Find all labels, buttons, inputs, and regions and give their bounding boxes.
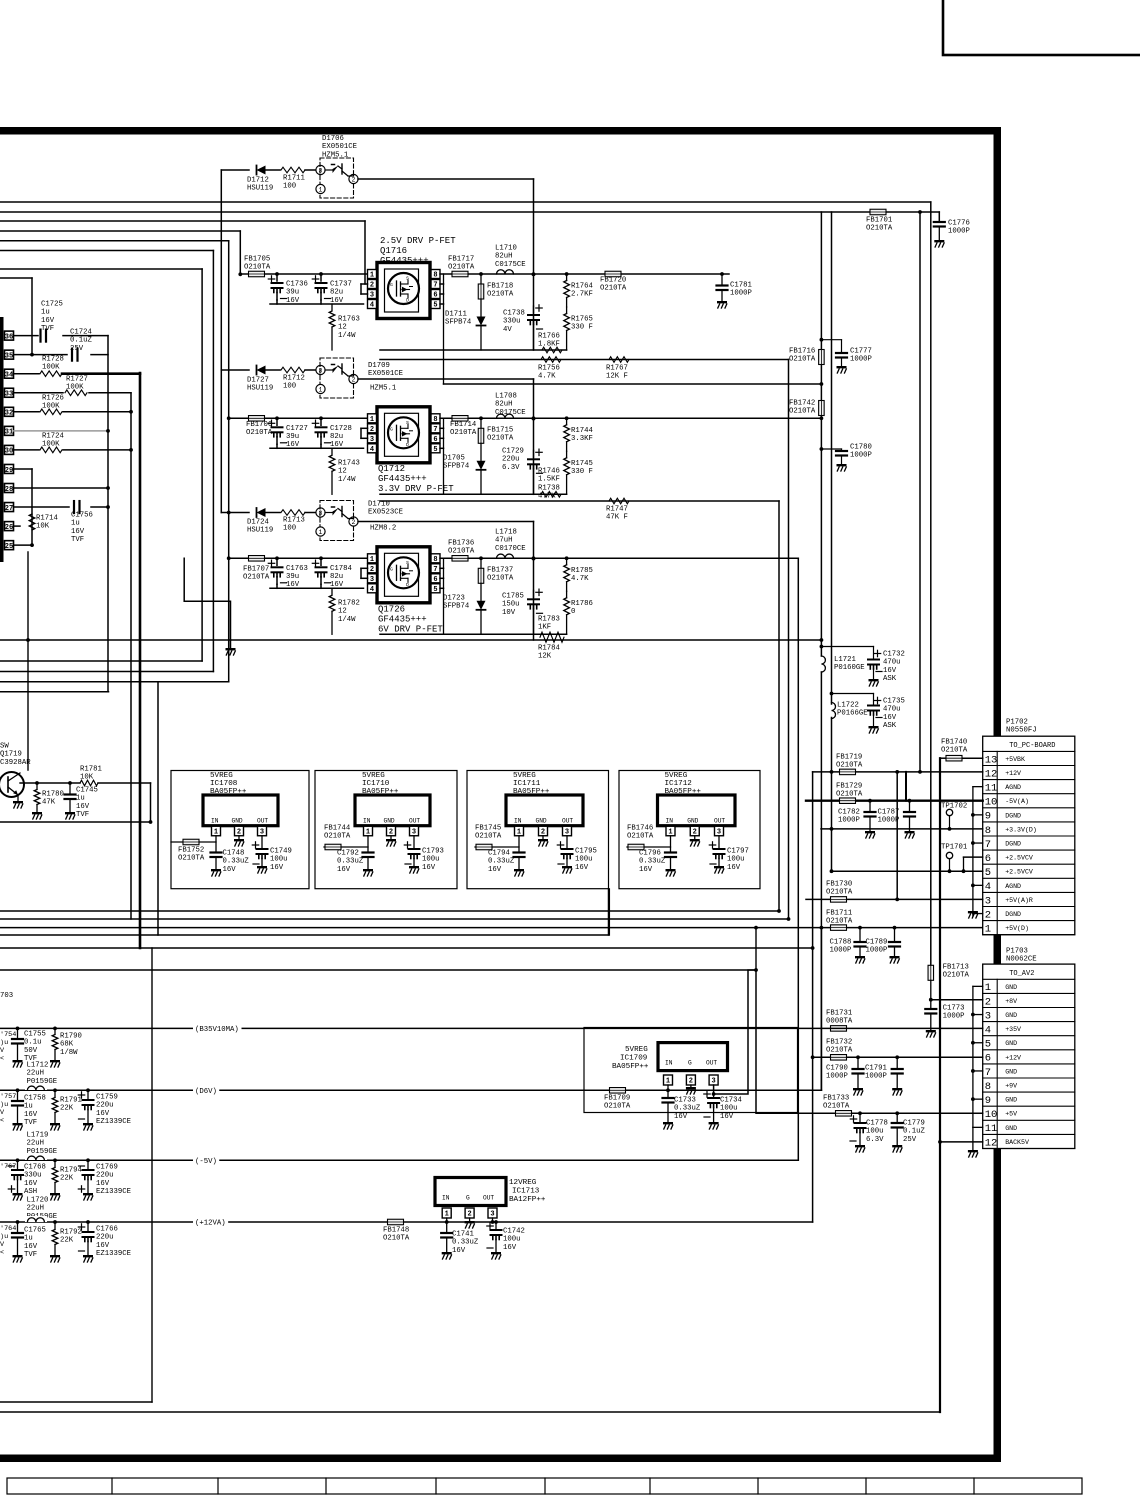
svg-text:TVF: TVF <box>24 1251 37 1259</box>
resistor R1767 <box>609 357 629 363</box>
wire IC1709 pin3 out <box>713 1085 715 1094</box>
svg-text:4.7K: 4.7K <box>571 575 589 583</box>
section box IC1711 <box>467 771 609 889</box>
connector pin 31 <box>5 426 14 435</box>
IC1711 pin 3 <box>563 826 572 836</box>
svg-text:C1749: C1749 <box>270 847 292 855</box>
wire rail2 stage1 <box>380 359 789 361</box>
Q1716 pin 6 <box>431 290 440 299</box>
svg-text:39u: 39u <box>286 289 299 297</box>
svg-text:Q1712: Q1712 <box>378 464 405 474</box>
svg-text:703: 703 <box>0 992 13 1000</box>
IC1708 pin 1 <box>212 826 221 836</box>
svg-text:100: 100 <box>283 383 296 391</box>
photo-triac D1706 package <box>316 165 325 174</box>
svg-text:O210TA: O210TA <box>604 1103 631 1111</box>
IC1710 pin 3 <box>410 826 419 836</box>
svg-text:R1744: R1744 <box>571 427 594 435</box>
svg-text:O210TA: O210TA <box>866 225 893 233</box>
svg-text:D1727: D1727 <box>247 376 269 384</box>
svg-text:R1714: R1714 <box>36 514 59 522</box>
svg-text:D1709: D1709 <box>368 362 390 370</box>
regulator IC1709 block <box>658 1043 728 1071</box>
IC1708 pin2 ground <box>238 836 240 839</box>
ferrite bead FB1716 <box>819 350 825 365</box>
edge connector bar <box>0 317 4 562</box>
svg-text:P1702: P1702 <box>1006 718 1028 726</box>
wire D1710 out <box>358 521 534 523</box>
svg-text:Q1716: Q1716 <box>380 246 407 256</box>
svg-text:C1758: C1758 <box>24 1094 46 1102</box>
svg-text:OUT: OUT <box>409 818 420 825</box>
svg-text:9: 9 <box>985 1095 991 1107</box>
wire vertical x906 <box>905 772 907 801</box>
svg-text:C1759: C1759 <box>96 1093 118 1101</box>
svg-text:FB1706: FB1706 <box>246 421 272 429</box>
svg-text:5: 5 <box>985 867 991 879</box>
wire feed Q1716 <box>240 273 367 275</box>
svg-text:D1723: D1723 <box>443 594 465 602</box>
capacitor C1782 <box>869 801 871 811</box>
Q1726 pin 4 <box>368 584 377 593</box>
svg-text:R1781: R1781 <box>80 765 103 773</box>
svg-text:C1737: C1737 <box>330 280 352 288</box>
svg-text:)u: )u <box>0 1039 8 1047</box>
svg-text:28: 28 <box>5 486 13 494</box>
P1702 pin 9 DGND <box>983 821 1075 823</box>
bus line M4 <box>0 681 229 683</box>
svg-text:35: 35 <box>5 352 13 360</box>
svg-text:C1773: C1773 <box>943 1004 965 1012</box>
wire vertical x920 +12V feed <box>919 212 921 772</box>
svg-text:L1719: L1719 <box>27 1131 49 1139</box>
svg-text:FB1729: FB1729 <box>836 782 862 790</box>
Q1712 pin 5 <box>431 444 440 453</box>
ferrite bead FB1730 <box>831 897 847 903</box>
wire x963 row6-row5 <box>963 857 965 871</box>
svg-text:O210TA: O210TA <box>448 548 475 556</box>
wire vertical x812 +12VA riser <box>812 772 814 1222</box>
svg-text:C1777: C1777 <box>850 347 872 355</box>
svg-text:G: G <box>466 1195 470 1202</box>
svg-text:S: S <box>406 276 409 282</box>
svg-text:3: 3 <box>490 1211 494 1219</box>
svg-text:FB1718: FB1718 <box>487 282 513 290</box>
svg-text:25V: 25V <box>70 345 84 353</box>
svg-text:3: 3 <box>985 1010 991 1022</box>
svg-text:47K: 47K <box>42 799 56 807</box>
P1703 pin 3 GND <box>983 1021 1075 1023</box>
svg-text:5VREG: 5VREG <box>665 772 688 780</box>
svg-text:39u: 39u <box>286 573 299 581</box>
inductor L1710 <box>497 270 514 274</box>
resistor R1713 <box>266 512 280 514</box>
svg-text:FB1732: FB1732 <box>826 1038 852 1046</box>
svg-text:R1791: R1791 <box>60 1096 83 1104</box>
resistor R1745 <box>564 458 570 475</box>
svg-text:BA05FP++: BA05FP++ <box>665 788 702 796</box>
svg-text:O210TA: O210TA <box>450 429 477 437</box>
svg-text:O210TA: O210TA <box>943 972 970 980</box>
bus line B7 <box>0 268 202 270</box>
svg-text:<: < <box>0 1117 4 1125</box>
wire Q1716 pin2-3 stubs <box>361 283 368 285</box>
P1702 pin 11 AGND <box>983 793 1075 795</box>
svg-text:16V: 16V <box>727 864 741 872</box>
IC1711 pin 1 <box>515 826 524 836</box>
svg-text:50V: 50V <box>24 1047 38 1055</box>
capacitor C1797 <box>718 836 720 848</box>
svg-text:1000P: 1000P <box>948 228 970 236</box>
svg-text:R1745: R1745 <box>571 460 593 468</box>
svg-text:R1746: R1746 <box>538 467 560 475</box>
Q1712 pin 6 <box>431 434 440 443</box>
svg-text:5VREG: 5VREG <box>513 772 536 780</box>
svg-text:16V: 16V <box>24 1180 38 1188</box>
inductor L1720 <box>25 1216 47 1222</box>
IC1708 pin 3 <box>258 826 267 836</box>
P1703 pin 2 +8V <box>983 1007 1075 1009</box>
IC1709 pin 1 <box>664 1075 673 1085</box>
svg-text:SFPB74: SFPB74 <box>445 319 472 327</box>
svg-text:FB1701: FB1701 <box>866 216 893 224</box>
capacitor C1778 <box>859 1113 861 1122</box>
capacitor C1777 <box>821 339 841 341</box>
svg-text:+2.5VCV: +2.5VCV <box>1005 855 1033 862</box>
svg-text:3: 3 <box>985 895 991 907</box>
svg-text:1: 1 <box>370 416 374 424</box>
svg-text:AGND: AGND <box>1005 883 1021 890</box>
svg-text:16V: 16V <box>488 866 502 874</box>
svg-text:1000P: 1000P <box>826 1073 848 1081</box>
P1702 pin 4 AGND <box>983 891 1075 893</box>
svg-text:6: 6 <box>985 1053 991 1065</box>
svg-text:GF4435+++: GF4435+++ <box>380 256 429 266</box>
svg-text:D1712: D1712 <box>247 176 269 184</box>
resistor R1791 <box>54 1090 56 1097</box>
svg-text:5VREG: 5VREG <box>362 772 385 780</box>
capacitor C1727 <box>275 416 279 420</box>
svg-text:12: 12 <box>985 1137 998 1149</box>
P1702 pin 7 DGND <box>983 849 1075 851</box>
wire Q1716 pin5-7 stubs <box>440 283 444 285</box>
svg-text:+9V: +9V <box>1005 1083 1017 1090</box>
svg-text:1000P: 1000P <box>830 947 852 955</box>
svg-text:220u: 220u <box>502 456 520 464</box>
svg-text:SW: SW <box>0 742 9 750</box>
svg-text:10K: 10K <box>36 523 50 531</box>
resistor R1726 <box>14 411 40 413</box>
svg-text:5VREG: 5VREG <box>210 772 233 780</box>
wire caps bottom rail Q1712 <box>270 447 364 449</box>
svg-text:C0170CE: C0170CE <box>495 545 526 553</box>
svg-text:ASH: ASH <box>24 1188 37 1196</box>
svg-text:100K: 100K <box>42 364 60 372</box>
svg-text:100K: 100K <box>66 384 84 392</box>
svg-text:GND: GND <box>1005 1012 1017 1019</box>
Q1712 pin 3 <box>368 434 377 443</box>
svg-text:R1780: R1780 <box>42 790 64 798</box>
svg-text:C1780: C1780 <box>850 443 872 451</box>
regulator IC1713 block <box>435 1178 506 1206</box>
ferrite bead FB1733 <box>836 1111 852 1117</box>
svg-text:330u: 330u <box>503 318 521 326</box>
wire Q1726 pin5-7 stubs <box>440 567 444 569</box>
wire vertical x240 to stage1 <box>239 231 241 274</box>
svg-text:P0159GE: P0159GE <box>27 1148 58 1156</box>
svg-text:OUT: OUT <box>483 1195 494 1202</box>
ferrite bead FB1732 <box>831 1055 847 1061</box>
section box IC1712 <box>619 771 760 889</box>
svg-text:16V: 16V <box>452 1247 466 1255</box>
P1702 pin 3 +5V(A)R <box>983 906 1075 908</box>
svg-text:)u: )u <box>0 1101 8 1109</box>
svg-text:FB1733: FB1733 <box>823 1094 849 1102</box>
wire vertical x202 <box>201 269 203 661</box>
svg-text:2: 2 <box>467 1211 471 1219</box>
top-right title box <box>943 0 1140 55</box>
resistor R1765 <box>564 314 570 331</box>
svg-text:-5V(A): -5V(A) <box>1005 798 1029 805</box>
capacitor C1789 <box>894 928 896 941</box>
resistor R1786 <box>564 598 570 615</box>
svg-text:P0160GE: P0160GE <box>834 664 865 672</box>
svg-text:150u: 150u <box>502 601 520 609</box>
svg-text:D1711: D1711 <box>445 310 468 318</box>
svg-text:2: 2 <box>985 996 991 1008</box>
wire pin28 <box>14 487 109 489</box>
svg-text:8: 8 <box>433 416 437 424</box>
wire +12V row12 <box>813 771 983 773</box>
ferrite bead FB1744 <box>367 836 369 851</box>
resistor R1766 <box>542 347 562 353</box>
wire vertical x158 <box>157 682 159 935</box>
svg-text:5: 5 <box>433 446 437 454</box>
ferrite bead FB1705 <box>249 271 265 277</box>
svg-text:+35V: +35V <box>1005 1026 1021 1033</box>
svg-text:12K: 12K <box>538 653 552 661</box>
svg-text:16V: 16V <box>720 1113 734 1121</box>
svg-text:C1741: C1741 <box>452 1230 475 1238</box>
svg-text:C1765: C1765 <box>24 1226 46 1234</box>
IC1709 pin 3 <box>709 1075 718 1085</box>
bus line L2 <box>0 918 789 920</box>
svg-text:12: 12 <box>338 468 347 476</box>
photo-triac D1709 package <box>316 365 325 374</box>
resistor R1727 <box>14 392 64 394</box>
svg-text:FB1737: FB1737 <box>487 566 513 574</box>
P1703 pin 7 GND <box>983 1077 1075 1079</box>
svg-text:(+12VA): (+12VA) <box>195 1220 226 1228</box>
wire Q1712 output <box>440 417 821 419</box>
svg-text:HZM5.1: HZM5.1 <box>370 384 397 392</box>
svg-text:0008TA: 0008TA <box>826 1018 853 1026</box>
section box IC1709 <box>584 1028 798 1113</box>
svg-text:G: G <box>688 1060 692 1067</box>
capacitor C1734 <box>713 1094 715 1097</box>
svg-text:R1728: R1728 <box>42 355 64 363</box>
svg-text:FB1714: FB1714 <box>450 421 477 429</box>
section box IC1708 <box>171 771 309 889</box>
svg-text:1000P: 1000P <box>865 1073 887 1081</box>
svg-text:S: S <box>406 560 409 566</box>
wire Q1719 base row <box>20 782 80 784</box>
wire vertical x533 segment1 <box>533 179 535 350</box>
svg-text:8: 8 <box>433 556 437 564</box>
svg-text:7: 7 <box>433 566 437 574</box>
svg-text:C0175CE: C0175CE <box>495 409 526 417</box>
svg-text:4: 4 <box>370 446 374 454</box>
svg-text:330 F: 330 F <box>571 324 593 332</box>
IC1709 pin 2 <box>686 1075 695 1085</box>
svg-text:31: 31 <box>5 429 13 437</box>
resistor R1712 <box>266 369 280 371</box>
Q1716 pin 7 <box>431 280 440 289</box>
svg-text:C1787: C1787 <box>878 808 900 816</box>
svg-text:EX0501CE: EX0501CE <box>322 143 357 151</box>
svg-text:R1743: R1743 <box>338 459 360 467</box>
wire return line y1412 <box>0 1411 940 1413</box>
capacitor C1729 <box>533 450 535 457</box>
capacitor C1735 <box>832 693 874 695</box>
svg-text:1/4W: 1/4W <box>338 616 356 624</box>
svg-text:2: 2 <box>370 426 374 434</box>
svg-text:7: 7 <box>985 1067 991 1079</box>
wire vertical x821 chain FB1716/FB1742/L1721/D6V <box>820 212 822 656</box>
P1702 ground symbol <box>972 914 974 916</box>
svg-text:0.33uZ: 0.33uZ <box>639 858 666 866</box>
svg-text:O210TA: O210TA <box>475 833 502 841</box>
svg-text:10K: 10K <box>80 774 94 782</box>
svg-text:D1724: D1724 <box>247 518 270 526</box>
svg-text:1: 1 <box>370 272 374 280</box>
wire x443 350-384 link <box>443 350 445 384</box>
svg-text:16V: 16V <box>422 864 436 872</box>
connector P1702 table <box>983 736 1075 935</box>
svg-text:100u: 100u <box>866 1128 884 1136</box>
svg-text:16V: 16V <box>76 803 90 811</box>
IC1710 pin 2 <box>387 826 396 836</box>
svg-text:12K F: 12K F <box>606 373 628 381</box>
svg-text:C1745: C1745 <box>76 786 98 794</box>
wire IC1709 pin1 to D6V <box>667 1085 669 1090</box>
connector pin 30 <box>5 445 14 454</box>
Q1726 pin 6 <box>431 574 440 583</box>
svg-text:+5V(A)R: +5V(A)R <box>1005 897 1033 904</box>
resistor R1714 <box>29 514 35 530</box>
svg-text:5VREG: 5VREG <box>625 1046 648 1054</box>
wire IC1713 pin1 <box>446 1218 448 1222</box>
svg-text:1u: 1u <box>24 1235 33 1243</box>
svg-text:4: 4 <box>370 586 374 594</box>
wire Q1716 output <box>440 273 729 275</box>
svg-text:C1792: C1792 <box>337 849 359 857</box>
wire vertical x821 D6V riser <box>820 928 822 1091</box>
svg-text:FB1719: FB1719 <box>836 753 862 761</box>
svg-text:HSU119: HSU119 <box>247 185 273 193</box>
svg-text:1000P: 1000P <box>878 817 900 825</box>
border frame top bar <box>0 127 1001 135</box>
svg-text:12VREG: 12VREG <box>509 1179 537 1187</box>
ferrite bead FB1717 <box>452 271 468 277</box>
svg-text:BA05FP++: BA05FP++ <box>210 788 247 796</box>
connector pin 35 <box>5 350 14 359</box>
svg-text:R1738: R1738 <box>538 484 560 492</box>
svg-text:C1728: C1728 <box>330 425 352 433</box>
P1703 pin 6 +12V <box>983 1063 1075 1065</box>
svg-text:1.8KF: 1.8KF <box>538 341 560 349</box>
svg-text:5: 5 <box>433 302 437 310</box>
ferrite bead FB1729 <box>840 798 856 804</box>
wire vertical x221 from D1712 <box>220 170 222 513</box>
Q1712 pin 8 <box>431 414 440 423</box>
regulator IC1712 block <box>658 795 736 826</box>
svg-text:)u: )u <box>0 1233 8 1241</box>
capacitor C1785 <box>533 590 535 597</box>
ferrite bead FB1714 <box>452 416 468 422</box>
svg-text:2: 2 <box>370 566 374 574</box>
svg-text:GND: GND <box>1005 1097 1017 1104</box>
svg-text:'757: '757 <box>0 1093 16 1101</box>
capacitor C1758 <box>17 1090 19 1100</box>
capacitor C1779 <box>896 1113 898 1122</box>
svg-text:16V: 16V <box>270 864 284 872</box>
capacitor C1755 <box>17 1028 19 1038</box>
svg-text:470u: 470u <box>883 706 901 714</box>
svg-text:2: 2 <box>352 376 356 383</box>
svg-text:O210TA: O210TA <box>448 264 475 272</box>
transistor Q1719 <box>0 772 24 797</box>
svg-text:C1735: C1735 <box>883 697 905 705</box>
box3 edge extension <box>608 889 610 935</box>
svg-text:FB1711: FB1711 <box>826 909 853 917</box>
svg-text:13: 13 <box>985 754 998 766</box>
svg-text:GF4435+++: GF4435+++ <box>378 615 427 625</box>
svg-text:L1721: L1721 <box>834 656 857 664</box>
svg-text:7: 7 <box>985 839 991 851</box>
P1702 pin 10 -5V(A) <box>983 807 1075 809</box>
svg-text:36: 36 <box>5 333 13 341</box>
svg-text:O210TA: O210TA <box>246 429 273 437</box>
svg-text:OUT: OUT <box>706 1060 717 1067</box>
svg-text:1KF: 1KF <box>538 624 551 632</box>
svg-text:O210TA: O210TA <box>178 855 205 863</box>
svg-text:O210TA: O210TA <box>941 747 968 755</box>
svg-text:0.1uZ: 0.1uZ <box>70 337 93 345</box>
svg-text:12: 12 <box>338 324 347 332</box>
svg-text:16V: 16V <box>41 317 55 325</box>
svg-text:R1756: R1756 <box>538 364 560 372</box>
svg-text:3: 3 <box>370 436 374 444</box>
svg-text:OUT: OUT <box>714 818 725 825</box>
svg-text:L1708: L1708 <box>495 392 517 400</box>
svg-text:FB1709: FB1709 <box>604 1094 630 1102</box>
svg-text:L1718: L1718 <box>495 528 517 536</box>
svg-text:0.33uZ: 0.33uZ <box>674 1105 701 1113</box>
svg-text:D: D <box>406 298 409 304</box>
svg-text:D: D <box>406 442 409 448</box>
capacitor C1792 <box>363 851 374 853</box>
wire +5VBK row13 <box>940 757 946 759</box>
bus line B6 <box>0 250 213 252</box>
svg-text:1: 1 <box>445 1211 449 1219</box>
svg-text:C1738: C1738 <box>503 309 525 317</box>
svg-text:0.33uZ: 0.33uZ <box>452 1239 479 1247</box>
svg-text:1: 1 <box>666 1078 670 1086</box>
svg-text:R1790: R1790 <box>60 1032 82 1040</box>
svg-text:O210TA: O210TA <box>243 574 270 582</box>
svg-text:TP1701: TP1701 <box>941 843 968 851</box>
